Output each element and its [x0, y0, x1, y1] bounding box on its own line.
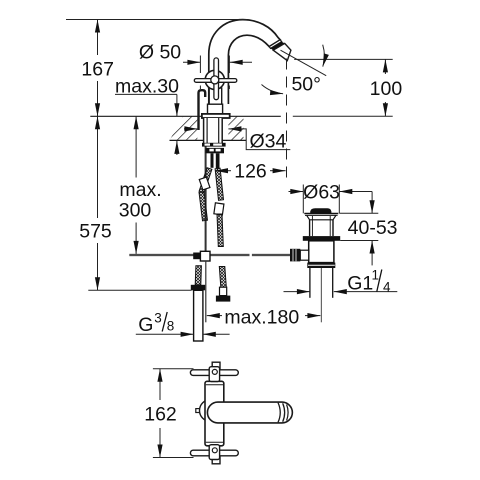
shank locknut — [206, 148, 225, 153]
shank washer — [202, 143, 226, 147]
svg-text:max.180: max.180 — [224, 307, 299, 329]
dimension 100 — [294, 58, 393, 60]
deck hatch left — [170, 116, 198, 140]
plan top handle hub — [209, 367, 219, 382]
dimension D34 with box — [184, 128, 197, 130]
body neck below handle — [209, 88, 222, 104]
svg-text:G1: G1 — [347, 272, 373, 294]
svg-text:1: 1 — [372, 268, 380, 283]
dimension 126 — [215, 170, 231, 172]
pop-up rod below deck — [205, 141, 207, 254]
dimension G1 1/4 — [284, 291, 310, 293]
linkage knob — [193, 253, 200, 260]
plan bottom handle bar — [190, 450, 238, 456]
cross handle vertical bar — [214, 58, 219, 100]
plan bottom handle hub — [209, 445, 219, 460]
right hose end flange — [216, 296, 230, 302]
spout black band — [271, 42, 285, 51]
left hose G3/8 tail — [194, 290, 203, 341]
drain neck taper — [307, 216, 336, 220]
drain bottom flange — [307, 263, 335, 268]
deck bottom line — [170, 139, 247, 141]
plan view rod pin — [196, 409, 200, 413]
drain gasket — [303, 236, 340, 241]
svg-text:167: 167 — [81, 58, 114, 80]
left hose crimp sleeve — [199, 177, 210, 190]
svg-text:3: 3 — [154, 311, 162, 326]
svg-text:126: 126 — [234, 161, 267, 183]
dimension 162 — [153, 368, 194, 370]
plan top handle stub — [212, 362, 220, 370]
svg-text:Ø34: Ø34 — [250, 130, 287, 152]
svg-text:G: G — [138, 314, 153, 336]
spout aerator tip — [273, 43, 291, 60]
drain knob connector — [300, 250, 308, 260]
left supply hose upper flex — [199, 168, 212, 193]
linkage coupler block — [200, 251, 210, 261]
svg-text:100: 100 — [370, 78, 403, 100]
deck hatch right — [228, 116, 243, 140]
left hose lower flex — [199, 192, 207, 221]
plan view body — [205, 381, 224, 446]
pop-up rod hook — [199, 90, 206, 130]
linkage vertical rod — [205, 261, 207, 322]
drain upper body — [309, 220, 311, 236]
pop-up linkage horizontal rod right part — [252, 253, 291, 255]
svg-text:50°: 50° — [291, 74, 321, 96]
plan view spout — [207, 402, 292, 423]
right hose mid flex — [217, 214, 223, 247]
svg-text:Ø 50: Ø 50 — [139, 42, 181, 64]
50 degree arc left — [262, 85, 284, 94]
svg-text:Ø63: Ø63 — [303, 181, 340, 203]
hose nipples — [211, 153, 214, 168]
spout and riser tube — [209, 20, 280, 104]
plan top handle bar — [190, 370, 238, 376]
deck top surface line — [90, 115, 280, 117]
cross handle center — [211, 76, 219, 84]
svg-text:300: 300 — [119, 200, 152, 222]
drain lower body — [309, 241, 334, 263]
dimension 40-53 — [339, 212, 378, 214]
cross handle hub — [205, 70, 224, 89]
left hose end flange — [191, 285, 205, 291]
svg-text:575: 575 — [79, 221, 112, 243]
drain flange plate — [304, 213, 338, 215]
dimension max.180 — [207, 315, 222, 317]
svg-text:8: 8 — [167, 319, 175, 334]
50 degree leader line — [281, 50, 327, 75]
drain centerline — [320, 268, 322, 322]
left hose end flex — [195, 266, 201, 285]
drain thread stubs G1 1/4 — [309, 268, 311, 298]
top extension line — [66, 19, 247, 21]
right hose crimp sleeve — [214, 203, 224, 215]
svg-text:162: 162 — [144, 404, 177, 426]
dimension max.300 vertical line — [135, 116, 137, 177]
dimension D63 — [302, 185, 304, 214]
dimension 167 / 575 vertical line — [97, 20, 99, 56]
body upper housing — [208, 104, 223, 114]
spout outlet dashed centerline — [286, 59, 288, 179]
50 degree arc right — [323, 45, 325, 67]
drain knurled knob — [290, 249, 300, 262]
right supply hose upper flex — [215, 168, 223, 200]
base flange — [202, 114, 230, 118]
plan bottom handle stub — [212, 456, 220, 464]
drain cap — [310, 208, 331, 213]
svg-text:40-53: 40-53 — [348, 217, 398, 239]
shank below deck — [204, 118, 223, 146]
right hose end flex — [219, 267, 226, 288]
cross handle horizontal bar — [194, 79, 237, 83]
pop-up linkage horizontal rod left part — [129, 253, 249, 255]
svg-text:4: 4 — [383, 280, 391, 295]
575 bottom extension line — [88, 289, 191, 291]
plan spout end arcs — [278, 403, 280, 423]
svg-text:max.: max. — [119, 179, 161, 201]
spout ring — [269, 40, 282, 49]
plan view cartridge circle — [200, 400, 222, 422]
right hose end nipple — [220, 287, 227, 295]
